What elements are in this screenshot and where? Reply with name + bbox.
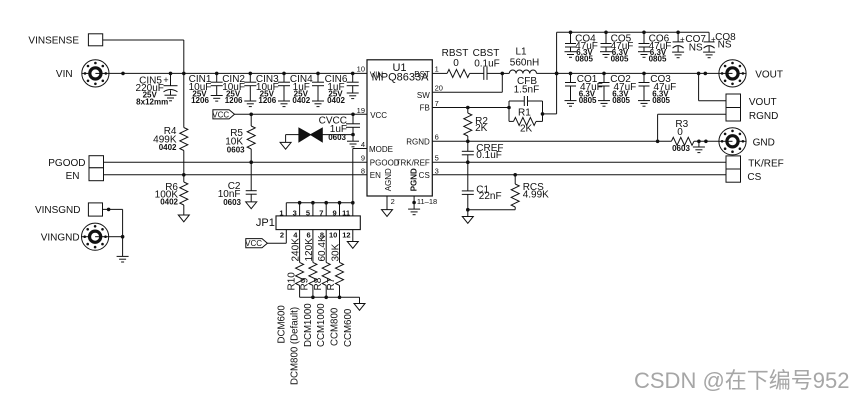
capacitor CBST	[470, 48, 503, 80]
svg-text:2K: 2K	[475, 123, 488, 134]
svg-text:1206: 1206	[225, 96, 243, 105]
svg-text:0805: 0805	[611, 54, 629, 63]
svg-text:BST: BST	[414, 70, 430, 79]
ground CIN5	[165, 95, 177, 101]
svg-text:SW: SW	[417, 91, 430, 100]
svg-text:0402: 0402	[292, 96, 310, 105]
ground VINGND	[117, 256, 129, 262]
connector RGND (square)	[726, 108, 778, 122]
svg-text:PGOOD: PGOOD	[48, 158, 85, 169]
ground CIN2	[244, 101, 256, 107]
svg-text:560nH: 560nH	[510, 58, 539, 69]
resistor R2	[464, 108, 489, 142]
wire RGND to square	[658, 114, 726, 141]
svg-text:MODE: MODE	[369, 145, 393, 154]
wire SW net	[432, 73, 502, 92]
diode D1 (back-to-back)	[286, 128, 353, 142]
connector GND (circle)	[719, 128, 775, 155]
svg-text:RGND: RGND	[406, 138, 430, 147]
ground CO6	[638, 52, 650, 58]
svg-text:30K: 30K	[331, 243, 342, 261]
svg-text:22nF: 22nF	[479, 191, 502, 202]
wire JP1 pin12 ground stub	[352, 230, 354, 242]
resistor R7	[326, 230, 343, 298]
svg-text:VCC: VCC	[212, 110, 229, 119]
pin AGND stub	[386, 196, 388, 210]
svg-text:0805: 0805	[575, 54, 593, 63]
wire RGND line	[432, 140, 671, 144]
node EN/R4/R6	[182, 173, 186, 177]
wire TRK/REF line	[432, 160, 726, 164]
wire FB net	[432, 106, 511, 110]
ground CO5	[600, 52, 612, 58]
svg-text:7: 7	[319, 208, 323, 217]
svg-text:PGND: PGND	[410, 168, 419, 191]
svg-text:9: 9	[333, 208, 337, 217]
svg-text:0805: 0805	[649, 54, 667, 63]
capacitor CREF	[462, 141, 504, 162]
connector TK/REF (square)	[726, 156, 784, 169]
node PGOOD/R5/C2	[249, 160, 253, 164]
svg-text:R8: R8	[313, 277, 324, 290]
connector EN	[66, 168, 104, 182]
svg-text:19: 19	[357, 106, 365, 115]
wire VOUT rail	[555, 72, 719, 76]
resistor R5	[225, 114, 255, 162]
pin numbers U1	[357, 64, 443, 206]
wire VOUT top rail	[555, 31, 709, 114]
ground CO8	[703, 52, 715, 58]
ground PGND	[408, 209, 420, 215]
ground CIN4	[312, 101, 324, 107]
capacitor CO7 (NS)	[673, 32, 707, 53]
wire VOUT to square	[699, 73, 726, 100]
svg-text:NS: NS	[718, 40, 732, 51]
ground CO2	[598, 101, 610, 107]
capacitor CO4	[565, 32, 598, 63]
svg-text:0603: 0603	[672, 144, 690, 153]
capacitor CIN5	[136, 73, 178, 106]
svg-text:10: 10	[329, 231, 337, 240]
wire VINSENSE net	[103, 40, 184, 73]
ground R6	[178, 215, 189, 222]
svg-text:20: 20	[435, 83, 443, 92]
capacitor CO5	[601, 32, 634, 63]
svg-text:0402: 0402	[160, 197, 178, 206]
wire VINGND net	[109, 236, 123, 238]
svg-text:60.4K: 60.4K	[317, 235, 328, 261]
capacitor CO8 (NS)	[704, 32, 737, 52]
svg-text:3: 3	[435, 166, 439, 175]
resistor R9	[300, 230, 317, 298]
wire PGOOD line	[104, 161, 368, 163]
svg-text:VINSENSE: VINSENSE	[28, 36, 79, 47]
svg-text:RGND: RGND	[749, 111, 778, 122]
connector CS (square)	[726, 169, 762, 183]
pin numbers JP1	[279, 208, 350, 239]
svg-text:0.1uF: 0.1uF	[474, 58, 500, 69]
resistor R10	[286, 230, 303, 298]
connector VOUT (square)	[726, 94, 777, 108]
svg-text:1206: 1206	[258, 96, 276, 105]
svg-text:0603: 0603	[328, 133, 346, 142]
svg-text:VCC: VCC	[370, 111, 387, 120]
node BST/SW/L1	[501, 72, 505, 76]
svg-text:DCM600: DCM600	[276, 305, 287, 344]
svg-text:VIN: VIN	[56, 69, 73, 80]
wire CS line	[432, 173, 726, 177]
svg-text:0603: 0603	[223, 198, 241, 207]
svg-text:9: 9	[361, 154, 365, 163]
capacitor CVCC	[319, 114, 360, 142]
op-amp U1 (IC MPQ8633A)	[367, 60, 432, 196]
svg-text:CSDN @在下编号9527: CSDN @在下编号9527	[634, 368, 849, 393]
svg-text:10: 10	[357, 64, 365, 73]
svg-text:1: 1	[435, 64, 439, 73]
svg-text:1: 1	[279, 208, 283, 217]
power flag VCC	[212, 110, 234, 120]
node labels DCM/CCM modes	[276, 303, 354, 385]
inductor L1	[502, 47, 556, 74]
wire JP1 top bus	[286, 201, 354, 216]
ground resistor bus	[354, 304, 365, 311]
ground AGND	[382, 210, 393, 217]
svg-text:DCM1000: DCM1000	[303, 303, 314, 347]
ground D1	[280, 142, 291, 149]
svg-text:+: +	[163, 75, 168, 85]
svg-text:11: 11	[342, 208, 350, 217]
svg-text:240K: 240K	[291, 238, 302, 262]
svg-text:0: 0	[677, 127, 683, 138]
svg-text:0603: 0603	[227, 145, 245, 154]
svg-text:2K: 2K	[520, 124, 533, 135]
capacitor CIN1	[189, 73, 223, 105]
ground JP1 pin12	[347, 242, 358, 249]
watermark CSDN	[634, 368, 849, 393]
resistor R8	[313, 230, 330, 298]
capacitor CIN6	[325, 73, 359, 105]
ground CO3	[638, 101, 650, 107]
svg-text:R7: R7	[326, 277, 337, 290]
capacitor CFB with resistor R1 (parallel)	[509, 76, 543, 135]
wire JP1 pin2 to VCC	[267, 230, 286, 244]
ground CO1	[565, 101, 577, 107]
capacitor CIN3	[256, 73, 290, 105]
svg-text:NS: NS	[689, 43, 703, 54]
svg-text:2: 2	[280, 231, 284, 240]
svg-text:8x12mm: 8x12mm	[136, 98, 168, 107]
connector VIN	[56, 60, 109, 87]
ground C2	[246, 202, 257, 209]
svg-text:AGND: AGND	[384, 168, 393, 191]
capacitor CO2	[599, 73, 637, 105]
svg-text:6: 6	[435, 132, 439, 141]
connector PGOOD	[48, 156, 103, 169]
svg-text:R10: R10	[286, 272, 297, 291]
power flag VCC (JP1)	[245, 239, 267, 249]
svg-text:0805: 0805	[652, 96, 670, 105]
svg-text:3: 3	[293, 208, 297, 217]
svg-text:FB: FB	[420, 104, 430, 113]
resistor RBST	[432, 48, 469, 77]
resistor R6	[155, 175, 188, 215]
ground CO4	[565, 52, 577, 58]
svg-text:0: 0	[453, 58, 459, 69]
svg-text:0402: 0402	[327, 96, 345, 105]
svg-text:JP1: JP1	[256, 217, 275, 229]
svg-text:VCC: VCC	[245, 239, 262, 248]
svg-text:11–18: 11–18	[417, 197, 437, 206]
capacitor CO3	[639, 73, 677, 105]
svg-text:120K: 120K	[304, 238, 315, 262]
svg-text:VOUT: VOUT	[749, 97, 777, 108]
svg-text:4: 4	[361, 140, 365, 149]
svg-text:CCM600: CCM600	[343, 308, 354, 347]
svg-text:CCM800: CCM800	[330, 307, 341, 346]
capacitor C2	[218, 162, 257, 207]
capacitor CO6	[639, 32, 672, 63]
svg-text:0805: 0805	[612, 96, 630, 105]
pin PGND stub	[412, 196, 416, 209]
svg-text:7: 7	[435, 99, 439, 108]
svg-text:R1: R1	[518, 108, 531, 119]
ground CIN6	[347, 93, 359, 99]
ground CIN1	[211, 96, 223, 102]
capacitor CIN4	[290, 73, 324, 105]
header JP1	[256, 216, 360, 230]
svg-text:5: 5	[435, 154, 439, 163]
wire JP1 resistor bottom bus	[300, 296, 360, 304]
resistor R4	[153, 73, 188, 174]
wire FB tap to VOUT	[541, 112, 557, 116]
capacitor CO1	[565, 73, 603, 105]
svg-text:TRK/REF: TRK/REF	[396, 159, 430, 168]
svg-text:1206: 1206	[191, 96, 209, 105]
connector VINGND	[41, 223, 109, 250]
svg-text:0805: 0805	[579, 96, 597, 105]
svg-text:L1: L1	[515, 47, 527, 58]
connector VOUT (circle)	[719, 60, 783, 87]
connector VINSENSE	[28, 34, 102, 47]
svg-text:0402: 0402	[159, 143, 177, 152]
resistor RCS	[468, 175, 549, 210]
capacitor CIN2	[222, 73, 256, 105]
wire VINSGND net	[103, 208, 125, 257]
svg-text:2: 2	[391, 197, 395, 206]
svg-text:GND: GND	[753, 138, 775, 149]
svg-text:8: 8	[361, 166, 365, 175]
svg-text:EN: EN	[370, 171, 381, 180]
svg-text:EN: EN	[66, 171, 80, 182]
ground CVCC	[347, 141, 359, 147]
svg-text:VIN: VIN	[370, 70, 384, 79]
wire MODE net	[353, 149, 367, 203]
node VIN junctions	[121, 72, 354, 76]
svg-text:5: 5	[306, 208, 310, 217]
svg-text:VOUT: VOUT	[755, 69, 783, 80]
svg-text:VINSGND: VINSGND	[35, 205, 81, 216]
svg-text:CCM1000: CCM1000	[316, 303, 327, 347]
ground C1	[462, 217, 473, 224]
svg-text:+: +	[680, 35, 685, 44]
wire VIN rail	[109, 72, 367, 74]
svg-text:R9: R9	[300, 277, 311, 290]
ground R3	[693, 147, 705, 153]
svg-text:1.5nF: 1.5nF	[514, 85, 540, 96]
svg-text:TK/REF: TK/REF	[748, 158, 784, 169]
svg-text:0.1uF: 0.1uF	[476, 150, 502, 161]
connector VINSGND	[35, 203, 103, 216]
svg-text:VINGND: VINGND	[41, 232, 80, 243]
wire VCC net	[235, 113, 368, 117]
capacitor C1	[462, 162, 502, 216]
svg-text:12: 12	[342, 231, 350, 240]
svg-text:CS: CS	[747, 172, 761, 183]
wire EN line	[104, 174, 368, 176]
svg-text:4.99K: 4.99K	[523, 189, 549, 200]
ground CO7	[672, 52, 684, 58]
ground CIN3	[278, 101, 290, 107]
svg-text:CS: CS	[419, 171, 430, 180]
svg-text:DCM800 (Default): DCM800 (Default)	[290, 307, 301, 385]
resistor R3	[671, 119, 719, 153]
